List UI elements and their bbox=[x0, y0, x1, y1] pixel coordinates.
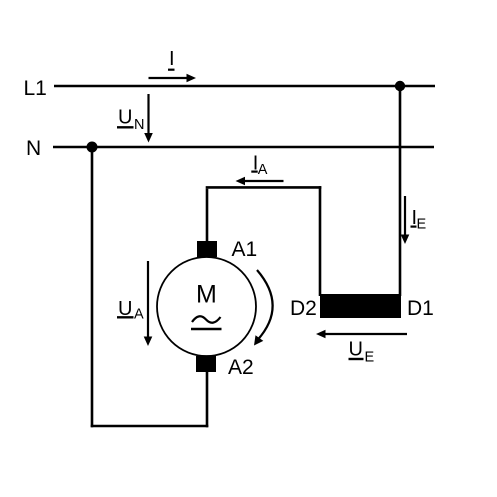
label U_N bbox=[117, 107, 144, 133]
svg-text:L1: L1 bbox=[24, 77, 47, 100]
current arrow I_E bbox=[401, 196, 410, 244]
svg-text:N: N bbox=[26, 137, 41, 160]
label I bbox=[168, 48, 175, 70]
voltage arrow U_N bbox=[144, 94, 153, 143]
node on L1 (junction dot) bbox=[395, 81, 405, 91]
rotation direction arrow bbox=[254, 270, 273, 346]
wire from terminal A1 up to armature loop bbox=[206, 189, 209, 243]
field winding E1 (black bar) bbox=[320, 294, 401, 318]
AC symbol (tilde over line) bbox=[191, 316, 222, 329]
svg-text:D2: D2 bbox=[290, 297, 317, 320]
svg-text:E: E bbox=[417, 217, 427, 233]
svg-text:A1: A1 bbox=[232, 238, 258, 261]
voltage arrow U_A bbox=[144, 261, 153, 346]
svg-text:A: A bbox=[134, 307, 144, 323]
motor M1 circle bbox=[157, 257, 256, 356]
label I_A bbox=[251, 152, 267, 178]
svg-text:A: A bbox=[258, 162, 268, 178]
svg-text:A2: A2 bbox=[228, 356, 254, 379]
terminal A1 bbox=[197, 241, 217, 257]
label U_E bbox=[349, 339, 375, 366]
svg-text:U: U bbox=[118, 107, 132, 129]
wire from N node down left side bbox=[91, 147, 94, 427]
svg-text:D1: D1 bbox=[407, 297, 434, 320]
svg-text:N: N bbox=[134, 117, 144, 133]
node on N (junction dot) bbox=[87, 142, 98, 153]
svg-text:I: I bbox=[169, 48, 175, 70]
terminal A2 bbox=[196, 356, 216, 372]
current arrow I_A bbox=[236, 177, 284, 186]
svg-text:E: E bbox=[365, 350, 375, 366]
current arrow I bbox=[149, 74, 197, 83]
wire from L1 node down to field terminal D1 bbox=[399, 86, 402, 296]
svg-text:M: M bbox=[196, 281, 217, 309]
bottom wire bbox=[91, 425, 209, 428]
wire down to field terminal D2 bbox=[319, 186, 322, 296]
armature top wire bbox=[206, 186, 322, 189]
wire L1 (phase line) bbox=[54, 85, 435, 88]
wire up to terminal A2 bbox=[206, 370, 209, 427]
label I_E bbox=[411, 207, 427, 233]
wire N (neutral line) bbox=[53, 146, 434, 148]
label U_A bbox=[117, 298, 144, 323]
voltage arrow U_E bbox=[316, 330, 407, 339]
svg-text:U: U bbox=[349, 339, 363, 361]
